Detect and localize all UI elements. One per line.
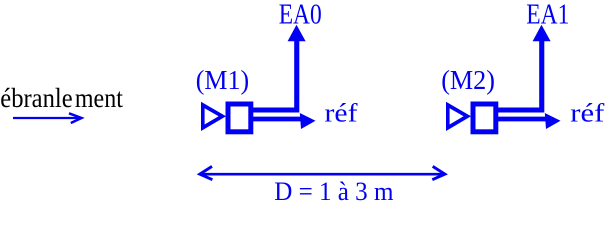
svg-text:D = 1 à 3 m: D = 1 à 3 m [274, 177, 393, 204]
svg-text:EA0: EA0 [279, 0, 322, 31]
svg-text:(M2): (M2) [441, 65, 495, 95]
svg-text:réf: réf [325, 99, 358, 128]
svg-text:ébranle: ébranle [0, 83, 72, 113]
svg-text:ment: ment [75, 83, 123, 113]
svg-text:EA1: EA1 [526, 0, 569, 31]
svg-text:(M1): (M1) [196, 65, 249, 95]
svg-text:réf: réf [570, 99, 604, 128]
